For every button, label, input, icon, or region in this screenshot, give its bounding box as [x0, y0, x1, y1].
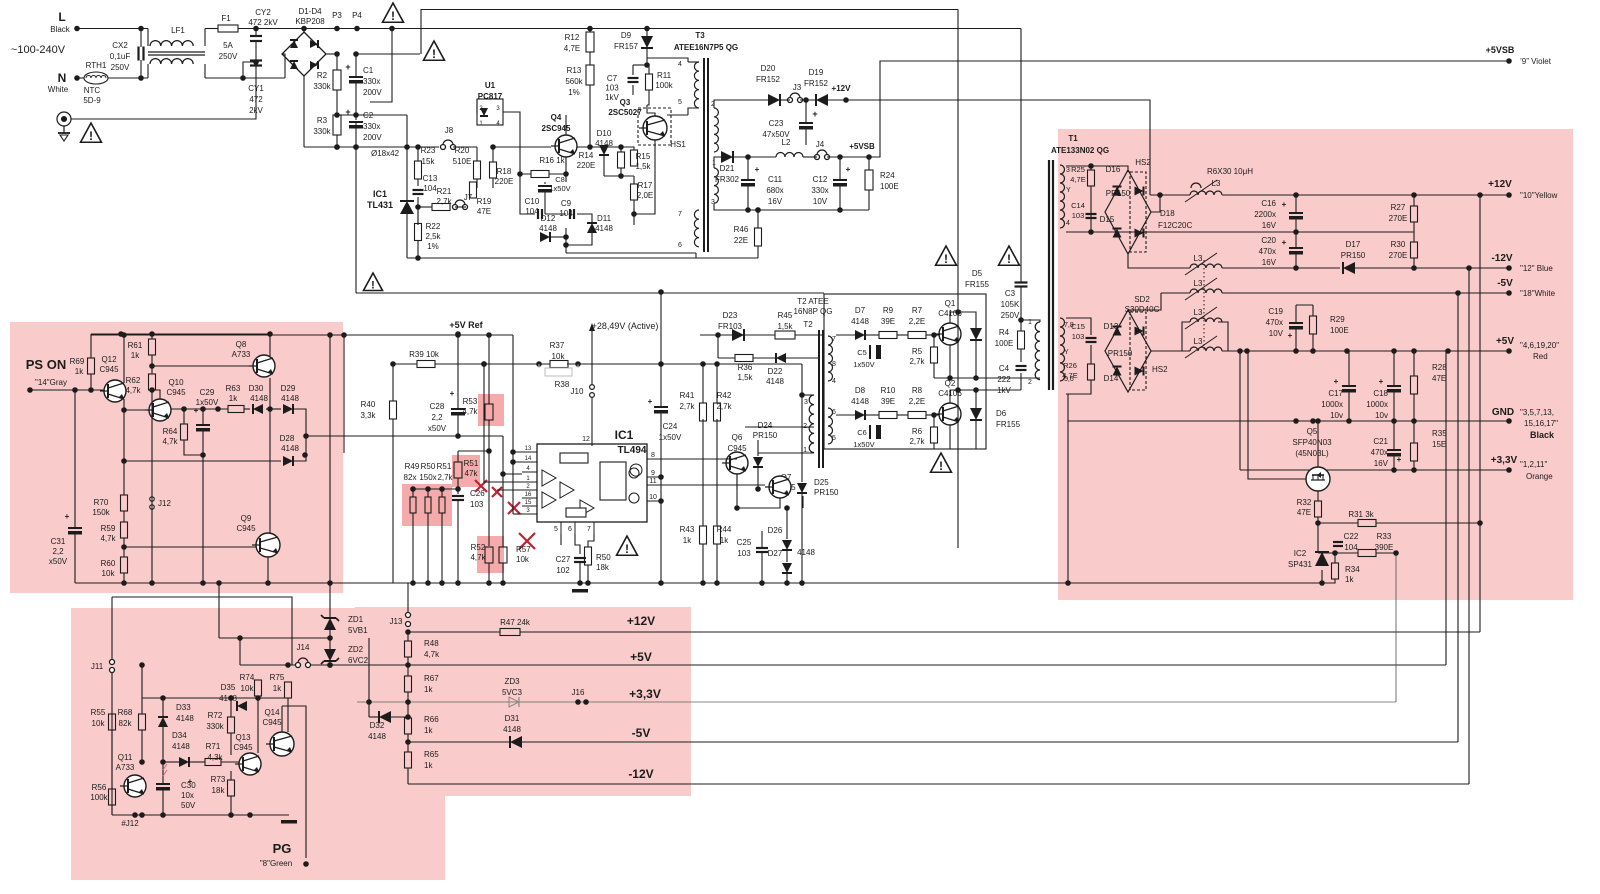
svg-text:3: 3 — [1066, 167, 1070, 174]
svg-text:C1: C1 — [363, 66, 374, 75]
svg-text:4148: 4148 — [766, 377, 784, 386]
svg-text:9: 9 — [651, 470, 655, 477]
svg-text:R30: R30 — [1391, 240, 1406, 249]
svg-text:4148: 4148 — [250, 394, 268, 403]
svg-text:R31 3k: R31 3k — [1348, 510, 1374, 519]
svg-text:222: 222 — [997, 375, 1011, 384]
svg-text:Q11: Q11 — [118, 753, 133, 762]
svg-text:4148: 4148 — [281, 444, 299, 453]
svg-text:R41: R41 — [680, 391, 695, 400]
svg-text:6: 6 — [832, 409, 836, 416]
svg-text:R72: R72 — [208, 711, 223, 720]
svg-text:FR152: FR152 — [756, 75, 781, 84]
svg-text:#J12: #J12 — [121, 819, 139, 828]
svg-text:D9: D9 — [621, 31, 632, 40]
svg-text:16V: 16V — [1262, 221, 1277, 230]
svg-text:SP431: SP431 — [1288, 560, 1313, 569]
svg-text:C945: C945 — [166, 388, 186, 397]
svg-text:C24: C24 — [663, 422, 678, 431]
svg-text:102: 102 — [556, 566, 570, 575]
svg-text:L3: L3 — [1194, 254, 1203, 263]
svg-text:1kV: 1kV — [605, 93, 619, 102]
svg-text:-5V: -5V — [632, 726, 651, 740]
svg-text:C5: C5 — [857, 348, 867, 357]
svg-text:4148: 4148 — [797, 548, 815, 557]
svg-text:ATEE16N7P5 QG: ATEE16N7P5 QG — [674, 43, 738, 52]
svg-text:4148: 4148 — [539, 224, 557, 233]
svg-text:4148: 4148 — [595, 224, 613, 233]
svg-text:15: 15 — [525, 500, 532, 506]
svg-text:L3: L3 — [1194, 337, 1203, 346]
svg-text:22E: 22E — [734, 236, 748, 245]
svg-text:HS2: HS2 — [1135, 158, 1151, 167]
svg-text:250V: 250V — [219, 52, 238, 61]
svg-text:4148: 4148 — [368, 732, 386, 741]
svg-text:FR103: FR103 — [718, 322, 743, 331]
svg-text:+: + — [1379, 377, 1384, 386]
svg-text:1000x: 1000x — [1366, 400, 1388, 409]
svg-text:PG: PG — [273, 841, 292, 856]
svg-text:13: 13 — [525, 446, 532, 452]
svg-text:L3: L3 — [1194, 308, 1203, 317]
svg-text:1k: 1k — [720, 536, 729, 545]
svg-text:C21: C21 — [1373, 437, 1388, 446]
svg-text:C18: C18 — [1373, 389, 1388, 398]
svg-text:R70: R70 — [94, 498, 109, 507]
svg-text:+12V: +12V — [832, 84, 852, 93]
svg-text:510E: 510E — [453, 157, 472, 166]
svg-text:D7: D7 — [855, 306, 866, 315]
svg-text:!: ! — [371, 280, 375, 292]
svg-text:R35: R35 — [1432, 429, 1447, 438]
svg-text:330k: 330k — [313, 82, 331, 91]
svg-text:C8: C8 — [555, 175, 565, 184]
svg-text:+: + — [450, 389, 455, 398]
svg-text:-12V: -12V — [1491, 253, 1512, 264]
svg-text:D30: D30 — [249, 384, 264, 393]
svg-text:A733: A733 — [232, 350, 251, 359]
svg-text:C945: C945 — [233, 743, 253, 752]
svg-text:10v: 10v — [1330, 411, 1343, 420]
svg-text:10k: 10k — [516, 555, 530, 564]
svg-text:R62: R62 — [126, 376, 141, 385]
svg-text:"18"White: "18"White — [1520, 289, 1556, 298]
svg-text:Ø18x42: Ø18x42 — [371, 149, 400, 158]
svg-text:100E: 100E — [880, 182, 899, 191]
svg-text:F12C20C: F12C20C — [1158, 221, 1192, 230]
svg-text:C22: C22 — [1344, 532, 1359, 541]
svg-text:1k: 1k — [131, 351, 140, 360]
svg-text:+12V: +12V — [1488, 179, 1512, 190]
svg-text:4,7k: 4,7k — [462, 407, 478, 416]
svg-text:C14: C14 — [1071, 201, 1085, 210]
svg-text:R37: R37 — [550, 341, 565, 350]
svg-text:R28: R28 — [1432, 363, 1447, 372]
svg-text:11: 11 — [649, 478, 656, 485]
svg-text:T2: T2 — [803, 320, 813, 329]
svg-text:R49: R49 — [405, 462, 420, 471]
svg-text:D17: D17 — [1346, 240, 1361, 249]
svg-text:+: + — [812, 109, 817, 119]
svg-text:x50V: x50V — [428, 424, 447, 433]
svg-text:KBP208: KBP208 — [295, 17, 325, 26]
svg-text:R59: R59 — [101, 524, 116, 533]
svg-text:C15: C15 — [1071, 322, 1085, 331]
svg-text:2,7k: 2,7k — [679, 402, 695, 411]
svg-text:7: 7 — [587, 526, 591, 533]
svg-text:R23: R23 — [421, 146, 436, 155]
svg-text:R4: R4 — [999, 328, 1010, 337]
svg-text:220E: 220E — [495, 177, 514, 186]
svg-text:L: L — [58, 10, 65, 24]
svg-text:TL431: TL431 — [367, 200, 393, 210]
svg-text:+3,3V: +3,3V — [1491, 455, 1518, 466]
svg-text:ZD2: ZD2 — [348, 645, 364, 654]
svg-text:!: ! — [432, 47, 436, 61]
svg-text:R67: R67 — [424, 674, 439, 683]
svg-text:R50: R50 — [421, 462, 436, 471]
svg-text:R56: R56 — [92, 783, 107, 792]
svg-text:D24: D24 — [758, 421, 773, 430]
svg-text:1k: 1k — [229, 394, 238, 403]
svg-text:100E: 100E — [1330, 326, 1349, 335]
svg-text:R52: R52 — [471, 543, 486, 552]
svg-text:+: + — [1397, 455, 1402, 464]
svg-text:D12: D12 — [541, 214, 556, 223]
svg-text:White: White — [48, 85, 69, 94]
svg-text:5VB1: 5VB1 — [348, 626, 368, 635]
svg-text:+: + — [1282, 238, 1287, 247]
svg-text:R46: R46 — [734, 225, 749, 234]
svg-text:C11: C11 — [768, 175, 783, 184]
svg-text:D33: D33 — [176, 703, 191, 712]
svg-text:4148: 4148 — [851, 397, 869, 406]
svg-text:C23: C23 — [769, 119, 784, 128]
svg-text:Orange: Orange — [1526, 472, 1553, 481]
svg-text:R48: R48 — [424, 639, 439, 648]
svg-text:Red: Red — [1533, 352, 1548, 361]
svg-text:Black: Black — [1530, 430, 1555, 440]
svg-text:J13: J13 — [390, 617, 403, 626]
svg-text:!: ! — [1007, 252, 1011, 266]
svg-text:330k: 330k — [206, 722, 224, 731]
svg-text:Q12: Q12 — [101, 355, 117, 364]
svg-text:R42: R42 — [717, 391, 732, 400]
svg-text:CY2: CY2 — [255, 8, 271, 17]
svg-text:1%: 1% — [427, 242, 439, 251]
svg-text:SFP40N03: SFP40N03 — [1292, 438, 1332, 447]
svg-text:’9” Violet: ’9” Violet — [1520, 57, 1552, 66]
svg-text:IC2: IC2 — [1294, 549, 1307, 558]
svg-text:4: 4 — [1066, 220, 1070, 227]
svg-text:D20: D20 — [761, 64, 776, 73]
svg-text:104: 104 — [1344, 543, 1358, 552]
svg-text:R64: R64 — [163, 427, 178, 436]
svg-text:10k: 10k — [552, 352, 566, 361]
svg-text:C9: C9 — [561, 199, 572, 208]
svg-text:Y: Y — [1064, 349, 1069, 356]
svg-text:"12" Blue: "12" Blue — [1520, 264, 1553, 273]
svg-text:R17: R17 — [638, 181, 653, 190]
svg-text:10V: 10V — [813, 197, 828, 206]
svg-text:7: 7 — [832, 336, 836, 343]
svg-text:4,7k: 4,7k — [470, 553, 486, 562]
svg-text:16N8P QG: 16N8P QG — [794, 307, 833, 316]
svg-text:R39 10k: R39 10k — [409, 350, 440, 359]
svg-text:ZD3: ZD3 — [504, 677, 520, 686]
svg-text:5: 5 — [832, 435, 836, 442]
svg-text:R21: R21 — [437, 187, 452, 196]
svg-text:1000x: 1000x — [1321, 400, 1343, 409]
svg-text:D22: D22 — [768, 367, 783, 376]
svg-text:Q6: Q6 — [732, 433, 743, 442]
svg-text:C16: C16 — [1261, 199, 1276, 208]
svg-text:R18: R18 — [497, 167, 512, 176]
svg-text:-5V: -5V — [1497, 278, 1513, 289]
svg-text:!: ! — [89, 129, 93, 143]
svg-text:RTH1: RTH1 — [86, 61, 107, 70]
svg-text:R71: R71 — [206, 742, 221, 751]
svg-text:"1,2,11": "1,2,11" — [1520, 460, 1547, 469]
svg-text:12: 12 — [582, 436, 590, 443]
svg-text:"14"Gray: "14"Gray — [35, 378, 67, 387]
svg-text:3,3k: 3,3k — [360, 411, 376, 420]
svg-text:2,2: 2,2 — [431, 413, 443, 422]
svg-text:R45: R45 — [778, 311, 793, 320]
svg-text:D29: D29 — [281, 384, 296, 393]
svg-text:4,7k: 4,7k — [125, 386, 141, 395]
svg-text:FR155: FR155 — [996, 420, 1021, 429]
svg-text:18k: 18k — [212, 786, 226, 795]
svg-text:103: 103 — [1072, 332, 1085, 341]
svg-text:TL494: TL494 — [618, 445, 647, 456]
svg-text:39E: 39E — [881, 397, 895, 406]
svg-text:Q10: Q10 — [168, 378, 184, 387]
svg-text:~100-240V: ~100-240V — [11, 44, 66, 56]
svg-text:2,2E: 2,2E — [909, 397, 925, 406]
svg-text:4148: 4148 — [503, 725, 521, 734]
svg-text:39E: 39E — [881, 317, 895, 326]
svg-text:D1-D4: D1-D4 — [298, 7, 322, 16]
svg-text:R34: R34 — [1345, 565, 1360, 574]
svg-text:5: 5 — [678, 99, 682, 106]
svg-text:Q14: Q14 — [264, 708, 280, 717]
svg-text:270E: 270E — [1389, 214, 1408, 223]
svg-text:47E: 47E — [1432, 374, 1446, 383]
svg-text:D32: D32 — [370, 721, 385, 730]
svg-text:x50V: x50V — [49, 557, 68, 566]
svg-text:15E: 15E — [1432, 440, 1446, 449]
svg-text:Q4: Q4 — [551, 113, 562, 122]
svg-text:200V: 200V — [363, 88, 382, 97]
svg-text:U1: U1 — [485, 81, 496, 90]
svg-text:D19: D19 — [809, 68, 824, 77]
svg-text:100E: 100E — [995, 339, 1014, 348]
svg-text:"10"Yellow: "10"Yellow — [1520, 191, 1558, 200]
svg-text:C7: C7 — [607, 74, 618, 83]
svg-text:1k: 1k — [273, 684, 282, 693]
svg-text:5D-9: 5D-9 — [83, 96, 101, 105]
svg-text:C6: C6 — [857, 428, 867, 437]
svg-text:1k: 1k — [683, 536, 692, 545]
svg-text:+5V: +5V — [630, 650, 652, 664]
svg-text:IC1: IC1 — [615, 428, 634, 442]
svg-text:PR150: PR150 — [1106, 189, 1131, 198]
svg-text:D28: D28 — [280, 434, 295, 443]
svg-text:(45N03L): (45N03L) — [1295, 449, 1329, 458]
svg-text:D27: D27 — [768, 549, 783, 558]
svg-text:+5VSB: +5VSB — [1486, 45, 1515, 55]
svg-text:D23: D23 — [723, 311, 738, 320]
svg-text:C945: C945 — [99, 365, 119, 374]
svg-text:100k: 100k — [90, 793, 108, 802]
svg-text:T1: T1 — [1068, 134, 1078, 143]
svg-text:8: 8 — [651, 452, 655, 459]
svg-text:+: + — [1334, 377, 1339, 386]
svg-text:D15: D15 — [1100, 215, 1115, 224]
svg-text:C31: C31 — [51, 537, 66, 546]
svg-text:R57: R57 — [516, 545, 531, 554]
svg-text:PR150: PR150 — [814, 488, 839, 497]
svg-text:D6: D6 — [996, 409, 1007, 418]
svg-text:103: 103 — [737, 549, 751, 558]
svg-text:Q13: Q13 — [235, 733, 251, 742]
svg-text:10x: 10x — [181, 791, 194, 800]
svg-text:330k: 330k — [313, 127, 331, 136]
svg-text:"8"Green: "8"Green — [260, 859, 292, 868]
svg-text:R50: R50 — [596, 553, 611, 562]
svg-text:16V: 16V — [1374, 459, 1389, 468]
svg-text:C17: C17 — [1328, 389, 1343, 398]
svg-text:FR155: FR155 — [965, 280, 990, 289]
svg-text:14: 14 — [525, 456, 532, 462]
svg-text:FR152: FR152 — [804, 79, 829, 88]
svg-text:10: 10 — [649, 494, 657, 501]
svg-text:330x: 330x — [363, 122, 380, 131]
svg-text:D13: D13 — [1104, 322, 1119, 331]
svg-text:10k: 10k — [102, 569, 116, 578]
svg-text:HS2: HS2 — [1152, 365, 1168, 374]
svg-text:470x: 470x — [1371, 448, 1388, 457]
svg-text:Q3: Q3 — [620, 98, 631, 107]
svg-text:10k: 10k — [92, 719, 106, 728]
svg-text:R47 24k: R47 24k — [500, 618, 531, 627]
svg-text:+: + — [194, 406, 199, 415]
svg-text:D8: D8 — [855, 386, 866, 395]
svg-text:+: + — [755, 165, 760, 174]
svg-text:R65: R65 — [424, 750, 439, 759]
svg-text:D31: D31 — [505, 714, 520, 723]
svg-text:ZD1: ZD1 — [348, 615, 364, 624]
svg-text:R61: R61 — [128, 341, 143, 350]
svg-text:150k: 150k — [92, 508, 110, 517]
svg-text:R60: R60 — [101, 559, 116, 568]
svg-text:C27: C27 — [556, 555, 571, 564]
svg-text:330x: 330x — [363, 77, 380, 86]
svg-text:+: + — [1282, 200, 1287, 209]
svg-text:R6: R6 — [912, 427, 923, 436]
svg-text:R55: R55 — [91, 708, 106, 717]
svg-text:5: 5 — [554, 526, 558, 533]
svg-text:16V: 16V — [1262, 258, 1277, 267]
svg-text:R6X30 10μH: R6X30 10μH — [1207, 167, 1253, 176]
svg-text:47k: 47k — [465, 469, 479, 478]
svg-text:+5VSB: +5VSB — [849, 142, 875, 151]
svg-text:J14: J14 — [297, 643, 310, 652]
svg-text:1,5k: 1,5k — [737, 373, 753, 382]
svg-text:1x50V: 1x50V — [196, 398, 219, 407]
svg-text:15k: 15k — [422, 157, 436, 166]
svg-text:GND: GND — [1492, 407, 1514, 418]
svg-text:1k: 1k — [424, 761, 433, 770]
svg-text:4148: 4148 — [851, 317, 869, 326]
svg-text:2,0E: 2,0E — [637, 191, 653, 200]
svg-text:R75: R75 — [270, 673, 285, 682]
svg-text:R74: R74 — [240, 673, 255, 682]
svg-text:8: 8 — [832, 361, 836, 368]
svg-text:R12: R12 — [565, 33, 580, 42]
svg-text:10v: 10v — [1375, 411, 1388, 420]
svg-text:Black: Black — [50, 25, 71, 34]
svg-text:R10: R10 — [881, 386, 896, 395]
svg-text:C13: C13 — [423, 174, 438, 183]
svg-text:0,1uF: 0,1uF — [110, 52, 131, 61]
svg-text:C28: C28 — [430, 402, 445, 411]
svg-text:250V: 250V — [1001, 311, 1020, 320]
svg-text:-12V: -12V — [628, 767, 653, 781]
svg-text:4,7k: 4,7k — [424, 650, 440, 659]
svg-text:ATE133N02 QG: ATE133N02 QG — [1051, 146, 1109, 155]
svg-text:T3: T3 — [695, 31, 705, 40]
svg-text:1k: 1k — [1345, 575, 1354, 584]
svg-text:105K: 105K — [1001, 300, 1020, 309]
svg-text:2SC5027: 2SC5027 — [608, 108, 642, 117]
svg-text:16: 16 — [525, 492, 532, 498]
svg-text:+: + — [65, 512, 70, 521]
svg-text:390E: 390E — [1375, 543, 1394, 552]
svg-text:R51: R51 — [464, 459, 479, 468]
svg-text:104: 104 — [423, 184, 437, 193]
svg-text:J11: J11 — [91, 662, 104, 671]
svg-text:D5: D5 — [972, 269, 983, 278]
svg-text:D10: D10 — [597, 129, 612, 138]
svg-text:18k: 18k — [596, 563, 610, 572]
svg-text:PR150: PR150 — [1108, 349, 1133, 358]
svg-text:1k: 1k — [424, 726, 433, 735]
svg-text:2,7k: 2,7k — [437, 473, 453, 482]
svg-text:Y: Y — [1066, 187, 1071, 194]
svg-text:A733: A733 — [116, 763, 135, 772]
svg-text:D14: D14 — [1104, 374, 1119, 383]
svg-text:47E: 47E — [477, 207, 491, 216]
svg-text:R13: R13 — [567, 66, 582, 75]
svg-text:150x: 150x — [419, 473, 436, 482]
svg-text:R14: R14 — [579, 151, 594, 160]
svg-text:1x50V: 1x50V — [853, 360, 874, 369]
svg-text:Q5: Q5 — [1307, 427, 1318, 436]
svg-text:+3,3V: +3,3V — [629, 687, 661, 701]
svg-text:D18: D18 — [1160, 209, 1175, 218]
svg-text:+5V: +5V — [1496, 336, 1514, 347]
svg-text:D25: D25 — [814, 478, 829, 487]
svg-text:+: + — [345, 62, 350, 72]
svg-text:R68: R68 — [118, 708, 133, 717]
svg-text:330x: 330x — [811, 186, 828, 195]
svg-text:103: 103 — [1072, 211, 1085, 220]
svg-text:PC817: PC817 — [478, 92, 503, 101]
svg-text:FR302: FR302 — [715, 175, 740, 184]
svg-text:82k: 82k — [119, 719, 133, 728]
